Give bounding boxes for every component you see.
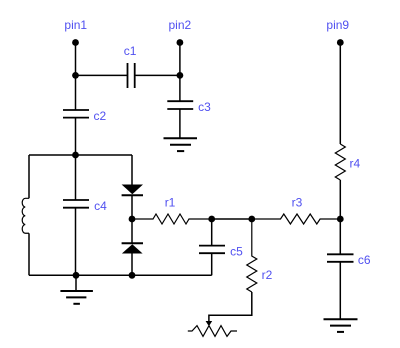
potentiometer RP <box>188 326 237 337</box>
wire c2 bottom <box>75 118 77 155</box>
node pin9 <box>337 39 344 46</box>
wire r2 to potentiometer <box>209 292 252 322</box>
svg-text:r1: r1 <box>165 195 176 209</box>
capacitor C6 <box>327 254 354 261</box>
wire pin9 to r4 <box>339 43 341 145</box>
wire pin1 to top bus <box>75 43 77 76</box>
svg-text:r4: r4 <box>350 157 361 171</box>
diode D1 <box>122 185 143 196</box>
inductor L1 <box>22 198 29 233</box>
node junction pin2/top bus <box>177 72 184 79</box>
resistor R1 <box>132 214 212 224</box>
node d1/d2/r1 <box>129 216 136 223</box>
wire c3 to ground <box>179 109 181 138</box>
ground under c6 <box>324 319 358 332</box>
node bottom bus ground <box>73 272 80 279</box>
wire c3 top <box>179 75 181 101</box>
capacitor C1 <box>128 63 135 88</box>
wire d1 to node <box>131 195 133 219</box>
wire c5 bottom to bus <box>211 253 213 275</box>
wire c2 top <box>75 75 77 110</box>
ground under bottom bus <box>60 291 93 304</box>
node junction c2/row155 <box>72 152 79 159</box>
wire c4 bottom <box>75 208 77 276</box>
wire top bus right of c1 <box>135 74 180 76</box>
wire d2 to bottom bus <box>131 254 133 276</box>
wire c6 to ground <box>339 262 341 320</box>
svg-text:pin1: pin1 <box>64 18 87 32</box>
wire r4 to node <box>339 180 341 219</box>
wire ground stub <box>75 275 77 291</box>
node pin2 <box>177 39 184 46</box>
svg-text:c6: c6 <box>358 253 371 267</box>
wire c6 top <box>339 219 341 254</box>
wire pin2 to top bus <box>179 43 181 76</box>
svg-text:r2: r2 <box>262 268 273 282</box>
node junction pin1/top bus <box>72 72 79 79</box>
wire left branch lower <box>28 233 30 275</box>
node r2/r3 <box>248 216 255 223</box>
wire c5 top <box>211 219 213 246</box>
diode D2 <box>122 243 143 253</box>
capacitor C4 <box>63 200 89 208</box>
wire bottom bus <box>29 274 212 276</box>
svg-text:r3: r3 <box>292 195 303 209</box>
svg-text:c2: c2 <box>94 109 107 123</box>
svg-text:c1: c1 <box>124 44 137 58</box>
wire top bus left of c1 <box>76 74 128 76</box>
node pin1 <box>72 39 79 46</box>
node bottom bus diode <box>129 272 136 279</box>
svg-text:c3: c3 <box>198 100 211 114</box>
svg-text:pin9: pin9 <box>326 18 349 32</box>
wire node to d2 <box>131 219 133 243</box>
wire r1 node to r2 node <box>212 218 252 220</box>
svg-text:c5: c5 <box>230 245 243 259</box>
potentiometer arrow <box>206 321 213 326</box>
ground under c3 <box>164 138 198 151</box>
wire c4 top <box>75 155 77 200</box>
svg-text:c4: c4 <box>94 199 107 213</box>
capacitor C3 <box>167 101 193 109</box>
wire diode branch top <box>131 155 133 185</box>
capacitor C5 <box>199 246 225 254</box>
wire row 155 <box>29 154 132 156</box>
capacitor C2 <box>63 110 89 118</box>
resistor R2 <box>247 219 257 292</box>
node r1/c5 <box>208 216 215 223</box>
node r3/r4/c6 <box>337 216 344 223</box>
resistor R3 <box>252 214 340 224</box>
wire left branch down <box>28 155 30 198</box>
svg-text:pin2: pin2 <box>169 18 192 32</box>
resistor R4 <box>335 144 345 180</box>
